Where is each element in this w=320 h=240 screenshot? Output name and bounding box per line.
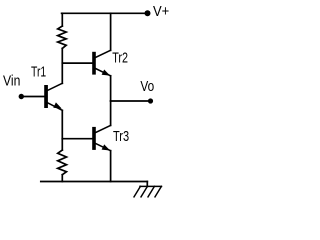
svg-text:Tr1: Tr1 — [31, 64, 46, 80]
svg-text:Tr2: Tr2 — [112, 51, 128, 67]
svg-text:Vo: Vo — [140, 79, 154, 95]
svg-text:Vin: Vin — [3, 73, 20, 89]
svg-text:Tr3: Tr3 — [113, 129, 129, 145]
svg-text:V+: V+ — [153, 4, 169, 20]
